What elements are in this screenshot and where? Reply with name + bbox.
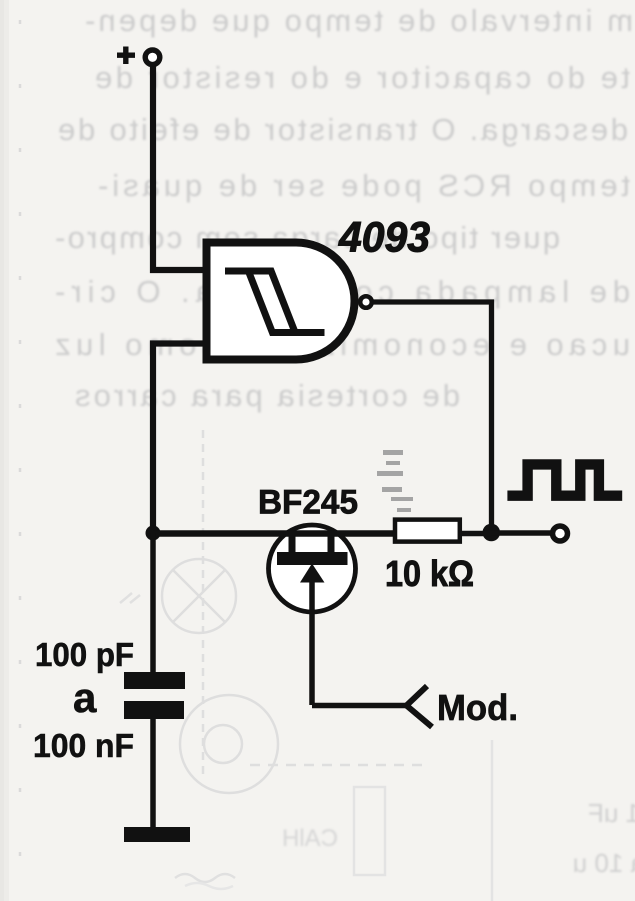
svg-text:1 uF: 1 uF xyxy=(588,798,635,828)
svg-text:4093: 4093 xyxy=(338,214,430,262)
svg-text:10 kΩ: 10 kΩ xyxy=(385,553,474,594)
svg-text:Mod.: Mod. xyxy=(437,687,518,728)
transistor Q1 BF245 JFET body xyxy=(269,525,356,612)
NAND gate U1 (4093 Schmitt) body xyxy=(207,243,355,360)
wire capacitor to ground xyxy=(150,719,156,830)
power supply + terminal xyxy=(117,47,160,65)
faint bleed shapes (decorative) xyxy=(20,20,492,901)
JFET gate arrow xyxy=(300,564,325,583)
square wave symbol xyxy=(507,464,622,495)
resistor R1 xyxy=(395,520,460,542)
output terminal xyxy=(553,526,568,541)
node (left junction) xyxy=(146,526,161,541)
capacitor C1 xyxy=(124,672,185,719)
svg-text:CAlH: CAlH xyxy=(282,825,338,852)
JFET drain/source stubs and channel xyxy=(277,533,348,565)
wire output feedback to right node xyxy=(372,302,492,533)
label 100 pF / a / 100 nF xyxy=(33,636,134,764)
svg-text:descarga. O transistor de efei: descarga. O transistor de efeito de xyxy=(58,112,628,147)
wire left node to capacitor xyxy=(150,533,156,673)
svg-text:m intervalo de tempo que depen: m intervalo de tempo que depen- xyxy=(85,3,633,38)
Mod. input terminal chevron xyxy=(407,686,433,727)
svg-text:100 nF: 100 nF xyxy=(33,727,134,764)
wire supply to gate input 1 xyxy=(153,66,207,270)
wire left node through JFET to resistor xyxy=(153,530,395,537)
wire gate input 2 to left node xyxy=(153,344,207,534)
svg-text:de cortesia para carros: de cortesia para carros xyxy=(75,378,460,413)
output bubble xyxy=(360,296,372,308)
wire resistor to right node xyxy=(462,531,491,537)
wire node to output terminal xyxy=(491,530,551,536)
svg-text:BF245: BF245 xyxy=(258,484,358,522)
svg-text:a 10 u: a 10 u xyxy=(573,848,635,878)
ground xyxy=(124,827,190,842)
node (right output junction) xyxy=(483,524,501,542)
svg-text:100 pF: 100 pF xyxy=(35,636,134,673)
svg-text:tempo RCS pode ser de quasi-: tempo RCS pode ser de quasi- xyxy=(98,168,630,203)
schmitt trigger hysteresis symbol xyxy=(225,268,325,337)
svg-text:te do capacitor e do resistor: te do capacitor e do resistor de xyxy=(95,60,630,95)
wire JFET gate to Mod input xyxy=(312,703,409,709)
svg-text:a: a xyxy=(73,674,97,721)
